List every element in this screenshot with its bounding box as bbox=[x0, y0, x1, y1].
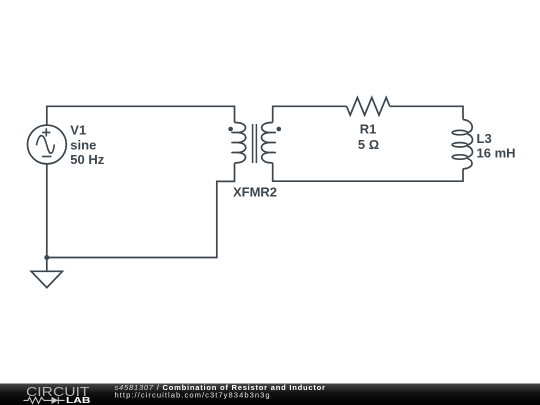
transformer polarity dot secondary bbox=[277, 127, 282, 132]
svg-text:LAB: LAB bbox=[66, 395, 91, 405]
transformer polarity dot primary bbox=[228, 127, 233, 132]
svg-text:50 Hz: 50 Hz bbox=[70, 152, 104, 167]
voltage source V1 bbox=[28, 125, 67, 164]
transformer XFMR2 secondary winding bbox=[262, 122, 276, 162]
node junction dot bbox=[44, 255, 49, 260]
wire bottom-left: ground node to transformer primary bottom bbox=[47, 163, 235, 258]
wire transformer secondary top to R1 bbox=[273, 106, 347, 122]
transformer XFMR2 primary winding bbox=[232, 122, 246, 162]
wire R1 to L3 top bbox=[390, 106, 463, 119]
inductor L3 bbox=[452, 120, 472, 169]
logo resistor squiggle bbox=[24, 397, 52, 403]
svg-text:R1: R1 bbox=[360, 121, 377, 136]
footer bar bbox=[0, 384, 540, 405]
wire L3 bottom to transformer secondary bottom bbox=[273, 163, 463, 181]
svg-text:sine: sine bbox=[70, 137, 96, 152]
logo diode bbox=[52, 397, 59, 404]
resistor R1 bbox=[347, 98, 390, 116]
svg-text:L3: L3 bbox=[477, 131, 492, 146]
svg-text:XFMR2: XFMR2 bbox=[233, 184, 277, 199]
svg-text:16 mH: 16 mH bbox=[477, 146, 516, 161]
wire top-left: V1 top to transformer primary bbox=[47, 106, 235, 125]
transformer core bbox=[253, 124, 257, 163]
svg-text:V1: V1 bbox=[70, 123, 86, 138]
label V1 bbox=[70, 123, 104, 168]
svg-text:5 Ω: 5 Ω bbox=[358, 137, 379, 152]
ground bbox=[31, 258, 62, 288]
wire V1 bottom lead bbox=[46, 164, 48, 258]
svg-text:http://circuitlab.com/c3t7y834: http://circuitlab.com/c3t7y834b3n3g bbox=[115, 390, 271, 399]
